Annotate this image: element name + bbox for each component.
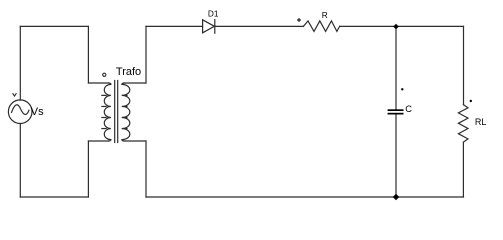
wire: capacitor branch lower xyxy=(395,115,397,198)
diode D1 triangle xyxy=(203,20,215,33)
wire: left loop left vertical lower xyxy=(19,124,21,198)
wire: left loop top rail xyxy=(20,25,88,27)
wire: capacitor branch upper xyxy=(395,27,397,110)
primary winding cusp tick 2 xyxy=(102,105,106,107)
primary winding cusp tick 1 xyxy=(102,94,106,96)
wire: secondary left vertical upper xyxy=(145,26,147,83)
wire: RL branch lower xyxy=(462,142,464,197)
star mark before R xyxy=(297,18,301,22)
wire: secondary left vertical lower xyxy=(145,141,147,197)
transformer polarity circle xyxy=(103,73,106,76)
wire: left loop left vertical upper xyxy=(19,26,21,100)
transformer core line 1 xyxy=(114,81,116,143)
capacitor C top plate xyxy=(388,109,404,111)
capacitor C bottom plate xyxy=(388,113,404,115)
primary winding cusp tick 3 xyxy=(102,117,106,119)
dot above RL xyxy=(470,100,472,102)
wire: secondary top lead xyxy=(124,82,146,84)
dot above capacitor C xyxy=(401,88,403,90)
transformer core line 2 xyxy=(117,81,119,143)
svg-text:Vs: Vs xyxy=(31,106,44,118)
junction dot bottom (capacitor to bottom rail) xyxy=(393,194,400,201)
wire: resistor R to top right corner xyxy=(340,25,464,27)
secondary winding cusp tick 2 xyxy=(122,105,127,107)
secondary winding cusp tick 1 xyxy=(122,94,127,96)
source Vs circle xyxy=(8,100,32,124)
polarity mark v above Vs xyxy=(13,94,16,96)
wire: top rail to diode xyxy=(146,25,203,27)
junction dot top (node between R, C, RL) xyxy=(393,24,399,30)
wire: primary top lead xyxy=(88,82,108,84)
resistor RL zigzag xyxy=(458,105,468,143)
wire: bottom rail xyxy=(146,196,464,198)
svg-text:R: R xyxy=(322,10,328,20)
svg-text:RL: RL xyxy=(475,117,487,127)
transformer primary winding xyxy=(104,83,111,141)
wire: primary bottom lead xyxy=(88,140,108,142)
svg-text:C: C xyxy=(405,104,412,114)
primary winding cusp tick 4 xyxy=(102,128,106,130)
svg-text:Trafo: Trafo xyxy=(116,66,141,78)
wire: left loop bottom rail xyxy=(20,196,88,198)
resistor R zigzag xyxy=(303,21,339,32)
svg-text:D1: D1 xyxy=(208,9,219,19)
transformer secondary winding xyxy=(122,83,130,141)
wire: RL branch upper xyxy=(463,26,465,104)
wire: left loop right vertical lower xyxy=(87,141,89,197)
wire: diode to resistor R xyxy=(215,25,304,27)
secondary winding cusp tick 4 xyxy=(122,128,127,130)
wire: secondary bottom lead xyxy=(124,140,146,142)
secondary winding cusp tick 3 xyxy=(122,117,127,119)
source Vs sine wave xyxy=(12,105,30,115)
diode D1 cathode bar xyxy=(214,20,216,34)
wire: left loop right vertical upper xyxy=(87,26,89,83)
